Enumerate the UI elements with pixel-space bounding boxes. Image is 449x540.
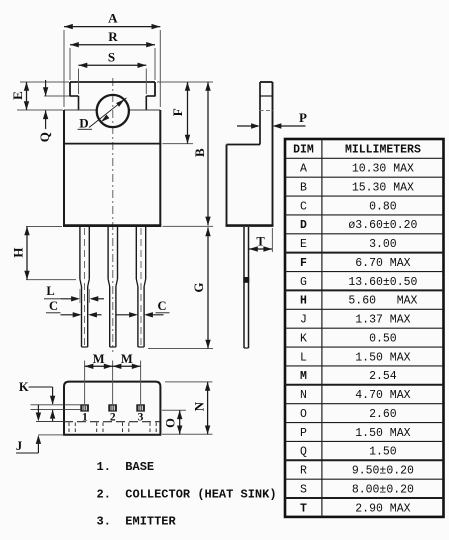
svg-text:B: B: [300, 181, 307, 194]
svg-text:L: L: [46, 284, 54, 298]
svg-text:O: O: [163, 418, 177, 428]
svg-text:H: H: [300, 295, 307, 308]
svg-text:10.30 MAX: 10.30 MAX: [352, 163, 414, 176]
svg-text:2: 2: [110, 411, 116, 423]
svg-text:C: C: [49, 299, 58, 313]
svg-text:H: H: [10, 247, 25, 257]
svg-text:0.50: 0.50: [369, 332, 397, 345]
svg-text:B: B: [192, 148, 207, 157]
svg-text:2.54: 2.54: [369, 370, 397, 383]
svg-text:0.80: 0.80: [369, 200, 397, 213]
svg-text:Q: Q: [300, 446, 307, 459]
svg-text:C: C: [157, 299, 166, 313]
svg-text:J: J: [300, 314, 307, 327]
svg-text:1.50: 1.50: [369, 446, 397, 459]
svg-text:3. EMITTER: 3. EMITTER: [97, 514, 177, 528]
svg-text:F: F: [300, 257, 307, 270]
svg-text:K: K: [300, 332, 307, 345]
svg-text:G: G: [191, 282, 206, 292]
svg-text:S: S: [300, 483, 307, 496]
svg-text:M: M: [121, 352, 133, 366]
svg-text:C: C: [300, 200, 307, 213]
svg-text:E: E: [10, 91, 25, 100]
svg-text:1.50 MAX: 1.50 MAX: [355, 351, 410, 364]
svg-text:T: T: [300, 502, 307, 515]
svg-text:P: P: [299, 110, 307, 125]
svg-text:T: T: [256, 235, 265, 249]
svg-text:1. BASE: 1. BASE: [97, 460, 155, 474]
svg-text:E: E: [300, 238, 307, 251]
svg-text:J: J: [16, 439, 22, 453]
svg-text:8.00±0.20: 8.00±0.20: [352, 483, 414, 496]
svg-text:1.50 MAX: 1.50 MAX: [355, 427, 410, 440]
svg-text:1.37 MAX: 1.37 MAX: [355, 314, 410, 327]
svg-text:2.60: 2.60: [369, 408, 397, 421]
svg-text:Q: Q: [37, 132, 52, 142]
svg-text:1: 1: [82, 411, 88, 423]
svg-text:A: A: [108, 11, 118, 26]
svg-text:D: D: [300, 219, 307, 232]
svg-text:L: L: [300, 351, 307, 364]
svg-text:R: R: [108, 29, 118, 44]
svg-text:S: S: [108, 49, 115, 64]
svg-text:3: 3: [138, 411, 144, 423]
svg-text:G: G: [300, 276, 307, 289]
svg-text:13.60±0.50: 13.60±0.50: [348, 276, 417, 289]
svg-text:M: M: [93, 352, 105, 366]
svg-text:2.90 MAX: 2.90 MAX: [355, 502, 410, 515]
svg-text:6.70 MAX: 6.70 MAX: [355, 257, 410, 270]
svg-text:MILLIMETERS: MILLIMETERS: [345, 144, 421, 157]
svg-text:F: F: [170, 108, 185, 116]
svg-text:2. COLLECTOR (HEAT SINK): 2. COLLECTOR (HEAT SINK): [97, 487, 277, 501]
svg-text:M: M: [300, 370, 307, 383]
svg-text:3.00: 3.00: [369, 238, 397, 251]
svg-text:15.30 MAX: 15.30 MAX: [352, 181, 414, 194]
svg-text:ø3.60±0.20: ø3.60±0.20: [348, 219, 417, 232]
svg-text:DIM: DIM: [293, 144, 314, 157]
svg-text:D: D: [79, 116, 88, 131]
svg-text:N: N: [192, 401, 207, 411]
svg-text:9.50±0.20: 9.50±0.20: [352, 465, 414, 478]
svg-text:A: A: [300, 163, 307, 176]
svg-text:R: R: [300, 465, 307, 478]
svg-text:4.70 MAX: 4.70 MAX: [355, 389, 410, 402]
svg-text:P: P: [300, 427, 307, 440]
svg-text:5.60 MAX: 5.60 MAX: [348, 295, 417, 308]
svg-text:O: O: [300, 408, 307, 421]
svg-text:N: N: [300, 389, 307, 402]
svg-text:K: K: [19, 380, 29, 394]
